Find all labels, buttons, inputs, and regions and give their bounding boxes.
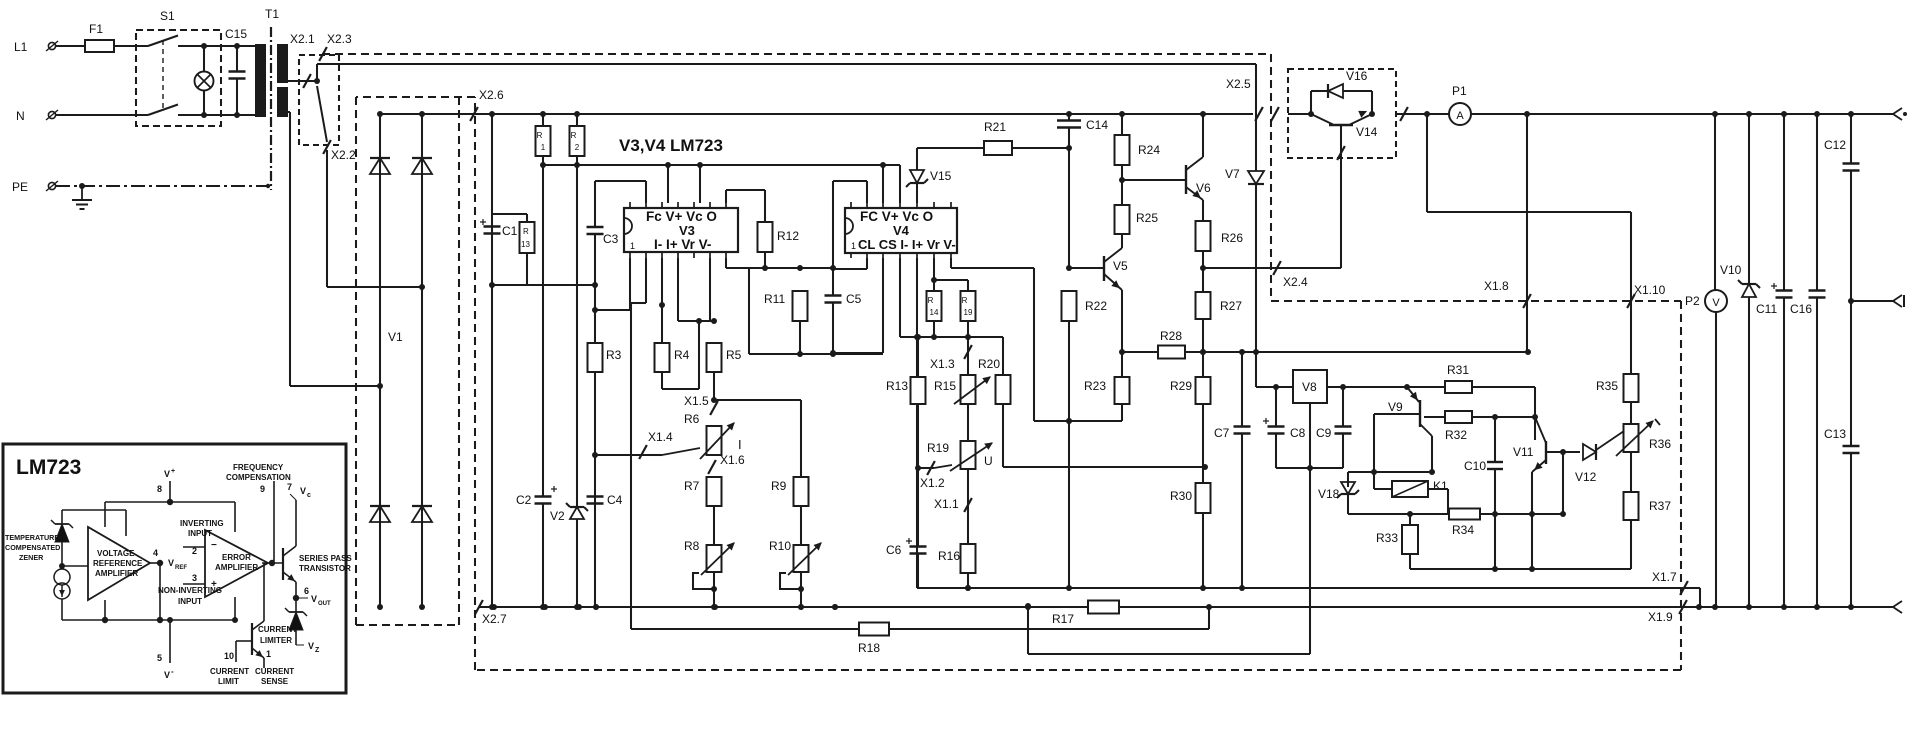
- svg-text:FREQUENCY: FREQUENCY: [233, 463, 284, 472]
- svg-text:V: V: [168, 558, 174, 568]
- svg-text:R11: R11: [764, 292, 785, 306]
- svg-text:+: +: [171, 468, 175, 475]
- svg-text:CURRENT: CURRENT: [255, 667, 294, 676]
- svg-text:X2.5: X2.5: [1226, 77, 1251, 91]
- svg-text:X1.8: X1.8: [1484, 279, 1509, 293]
- svg-text:X2.7: X2.7: [482, 612, 507, 626]
- svg-text:c: c: [307, 492, 311, 499]
- svg-text:C16: C16: [1790, 302, 1812, 316]
- svg-text:R28: R28: [1160, 329, 1182, 343]
- svg-text:R16: R16: [938, 549, 960, 563]
- svg-text:V16: V16: [1346, 69, 1368, 83]
- svg-text:R18: R18: [858, 641, 880, 655]
- svg-text:R10: R10: [769, 539, 791, 553]
- svg-text:V7: V7: [1225, 167, 1240, 181]
- svg-text:V: V: [311, 594, 317, 604]
- svg-text:V9: V9: [1388, 400, 1403, 414]
- svg-text:C13: C13: [1824, 427, 1846, 441]
- svg-text:R7: R7: [684, 479, 700, 493]
- svg-text:FC V+ Vc O: FC V+ Vc O: [860, 209, 933, 224]
- svg-text:TRANSISTOR: TRANSISTOR: [299, 564, 351, 573]
- svg-text:V14: V14: [1356, 125, 1378, 139]
- svg-text:R27: R27: [1220, 299, 1242, 313]
- svg-text:P2: P2: [1685, 294, 1700, 308]
- svg-text:R12: R12: [777, 229, 799, 243]
- svg-text:X1.9: X1.9: [1648, 610, 1673, 624]
- svg-text:R9: R9: [771, 479, 787, 493]
- svg-text:6: 6: [304, 586, 309, 596]
- svg-text:AMPLIFIER: AMPLIFIER: [215, 563, 258, 572]
- svg-text:SENSE: SENSE: [261, 677, 289, 686]
- svg-text:R37: R37: [1649, 499, 1671, 513]
- svg-text:V4: V4: [893, 223, 910, 238]
- svg-text:R32: R32: [1445, 428, 1467, 442]
- svg-text:V: V: [308, 641, 314, 651]
- svg-text:I- I+ Vr V-: I- I+ Vr V-: [654, 237, 711, 252]
- svg-text:V15: V15: [930, 169, 952, 183]
- svg-text:C5: C5: [846, 292, 862, 306]
- svg-text:CL CS I- I+ Vr V-: CL CS I- I+ Vr V-: [858, 237, 956, 252]
- svg-text:R: R: [571, 131, 577, 140]
- svg-text:X1.10: X1.10: [1634, 283, 1666, 297]
- svg-text:L1: L1: [14, 40, 28, 54]
- svg-text:X2.3: X2.3: [327, 32, 352, 46]
- svg-text:COMPENSATION: COMPENSATION: [226, 473, 291, 482]
- svg-text:F1: F1: [89, 22, 103, 36]
- svg-text:V1: V1: [388, 330, 403, 344]
- svg-text:R22: R22: [1085, 299, 1107, 313]
- svg-text:V18: V18: [1318, 487, 1340, 501]
- svg-text:R33: R33: [1376, 531, 1398, 545]
- svg-text:V3,V4 LM723: V3,V4 LM723: [619, 136, 723, 155]
- svg-text:V10: V10: [1720, 263, 1742, 277]
- svg-text:R: R: [523, 227, 529, 236]
- svg-text:P1: P1: [1452, 84, 1467, 98]
- svg-text:Fc V+ Vc O: Fc V+ Vc O: [646, 209, 717, 224]
- svg-text:V: V: [300, 486, 306, 496]
- svg-text:C2: C2: [516, 493, 532, 507]
- svg-text:X1.5: X1.5: [684, 394, 709, 408]
- svg-text:V: V: [1712, 297, 1720, 309]
- svg-text:R: R: [537, 131, 543, 140]
- svg-text:8: 8: [157, 484, 162, 494]
- svg-text:R15: R15: [934, 379, 956, 393]
- svg-text:13: 13: [521, 240, 530, 249]
- svg-text:R34: R34: [1452, 523, 1474, 537]
- svg-text:C7: C7: [1214, 426, 1230, 440]
- svg-text:C8: C8: [1290, 426, 1306, 440]
- svg-text:10: 10: [224, 651, 234, 661]
- svg-text:R3: R3: [606, 348, 622, 362]
- svg-text:1: 1: [630, 241, 635, 251]
- svg-text:R: R: [962, 296, 968, 305]
- svg-text:AMPLIFIER: AMPLIFIER: [95, 569, 138, 578]
- svg-text:1: 1: [266, 649, 271, 659]
- svg-text:Z: Z: [315, 647, 320, 654]
- svg-text:5: 5: [157, 653, 162, 663]
- svg-text:R21: R21: [984, 120, 1006, 134]
- svg-text:INPUT: INPUT: [188, 529, 212, 538]
- svg-text:V3: V3: [679, 223, 695, 238]
- svg-text:INVERTING: INVERTING: [180, 519, 224, 528]
- svg-text:VOLTAGE: VOLTAGE: [97, 549, 135, 558]
- svg-text:R35: R35: [1596, 379, 1618, 393]
- svg-text:I: I: [738, 437, 742, 452]
- svg-text:R19: R19: [927, 441, 949, 455]
- svg-text:C4: C4: [607, 493, 623, 507]
- svg-text:R30: R30: [1170, 489, 1192, 503]
- svg-text:9: 9: [260, 484, 265, 494]
- svg-text:4: 4: [153, 548, 158, 558]
- svg-text:PE: PE: [12, 180, 28, 194]
- svg-text:X1.7: X1.7: [1652, 570, 1677, 584]
- svg-text:X2.1: X2.1: [290, 32, 315, 46]
- svg-text:R17: R17: [1052, 612, 1074, 626]
- svg-text:NON-INVERTING: NON-INVERTING: [158, 586, 222, 595]
- svg-text:7: 7: [287, 482, 292, 492]
- svg-text:R31: R31: [1447, 363, 1469, 377]
- svg-text:R20: R20: [978, 357, 1000, 371]
- svg-text:R5: R5: [726, 348, 742, 362]
- svg-text:X1.4: X1.4: [648, 430, 673, 444]
- svg-text:X1.2: X1.2: [920, 476, 945, 490]
- svg-text:C11: C11: [1756, 302, 1777, 316]
- svg-text:LIMIT: LIMIT: [218, 677, 239, 686]
- svg-text:CURRENT: CURRENT: [210, 667, 249, 676]
- svg-text:SERIES PASS: SERIES PASS: [299, 554, 352, 563]
- svg-text:R36: R36: [1649, 437, 1671, 451]
- svg-text:C1: C1: [502, 224, 518, 238]
- svg-text:C12: C12: [1824, 138, 1846, 152]
- svg-text:R: R: [928, 296, 934, 305]
- svg-text:R6: R6: [684, 412, 700, 426]
- svg-text:X2.4: X2.4: [1283, 275, 1308, 289]
- svg-text:LIMITER: LIMITER: [260, 636, 292, 645]
- svg-text:R29: R29: [1170, 379, 1192, 393]
- svg-text:ZENER: ZENER: [19, 553, 44, 562]
- svg-text:V2: V2: [550, 509, 565, 523]
- svg-text:COMPENSATED: COMPENSATED: [5, 543, 60, 552]
- svg-text:N: N: [16, 109, 25, 123]
- svg-text:C14: C14: [1086, 118, 1108, 132]
- svg-text:−: −: [211, 540, 217, 551]
- svg-text:X1.1: X1.1: [934, 497, 959, 511]
- svg-text:2: 2: [575, 143, 580, 152]
- svg-text:R23: R23: [1084, 379, 1106, 393]
- svg-text:REFERENCE: REFERENCE: [93, 559, 143, 568]
- svg-text:V: V: [164, 670, 170, 680]
- svg-text:C6: C6: [886, 543, 902, 557]
- svg-text:1: 1: [541, 143, 546, 152]
- svg-text:CURRENT: CURRENT: [258, 625, 297, 634]
- svg-text:C15: C15: [225, 27, 247, 41]
- svg-text:ERROR: ERROR: [222, 553, 251, 562]
- svg-text:R13: R13: [886, 379, 908, 393]
- svg-text:R4: R4: [674, 348, 690, 362]
- svg-text:C3: C3: [603, 232, 619, 246]
- svg-text:X1.6: X1.6: [720, 453, 745, 467]
- svg-text:X1.3: X1.3: [930, 357, 955, 371]
- svg-text:19: 19: [964, 308, 973, 317]
- svg-text:R8: R8: [684, 539, 700, 553]
- svg-text:-: -: [171, 667, 174, 676]
- svg-text:U: U: [984, 454, 993, 468]
- svg-text:C10: C10: [1464, 459, 1486, 473]
- svg-text:V11: V11: [1513, 445, 1534, 459]
- svg-text:V8: V8: [1302, 380, 1317, 394]
- svg-text:INPUT: INPUT: [178, 597, 202, 606]
- svg-text:S1: S1: [160, 9, 175, 23]
- svg-text:A: A: [1456, 110, 1464, 122]
- svg-text:R26: R26: [1221, 231, 1243, 245]
- svg-text:REF: REF: [175, 565, 187, 571]
- svg-text:C9: C9: [1316, 426, 1332, 440]
- svg-text:1: 1: [851, 241, 856, 251]
- svg-text:V: V: [164, 469, 170, 479]
- svg-text:K1: K1: [1433, 479, 1448, 493]
- svg-text:LM723: LM723: [16, 456, 81, 479]
- svg-text:V5: V5: [1113, 259, 1128, 273]
- svg-text:14: 14: [930, 308, 939, 317]
- svg-text:OUT: OUT: [318, 601, 331, 607]
- svg-text:R25: R25: [1136, 211, 1158, 225]
- svg-text:V12: V12: [1575, 470, 1597, 484]
- svg-text:TEMPERATURE: TEMPERATURE: [5, 533, 59, 542]
- svg-text:T1: T1: [265, 7, 279, 21]
- svg-text:R24: R24: [1138, 143, 1160, 157]
- svg-text:X2.2: X2.2: [331, 148, 356, 162]
- svg-text:3: 3: [192, 573, 197, 583]
- svg-text:X2.6: X2.6: [479, 88, 504, 102]
